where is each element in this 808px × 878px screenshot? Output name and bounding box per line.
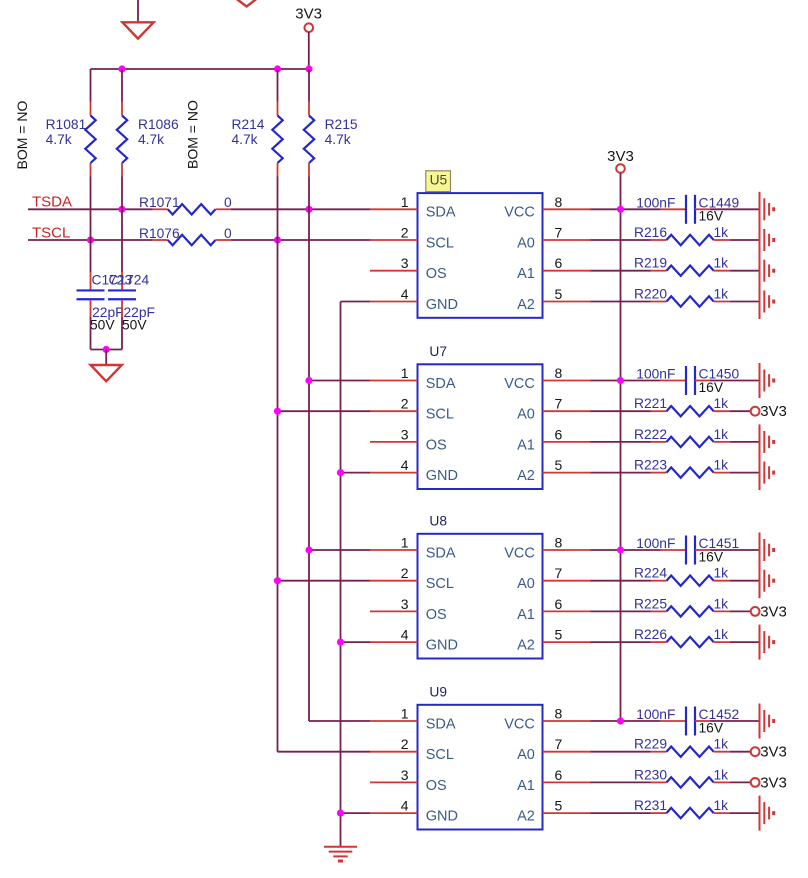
svg-text:3V3: 3V3: [760, 403, 787, 420]
svg-text:VCC: VCC: [504, 545, 535, 561]
svg-text:4: 4: [401, 627, 409, 643]
svg-text:100nF: 100nF: [636, 195, 675, 210]
junction TSDA/R1086: [118, 206, 125, 213]
resistor R229 1k: [591, 751, 651, 753]
pin 1 SDA of U5: [370, 208, 418, 210]
svg-text:1: 1: [401, 365, 409, 381]
pin 4 GND of U5: [370, 301, 418, 303]
wire U8.SDA to TSDA rail: [309, 549, 370, 551]
svg-text:7: 7: [555, 225, 563, 241]
junction caps/ground: [103, 346, 110, 353]
capacitor C1723 22pF 50V: [90, 272, 92, 290]
pin 2 SCL of U5: [370, 239, 418, 241]
svg-text:16V: 16V: [699, 380, 724, 395]
svg-text:1k: 1k: [714, 225, 729, 240]
svg-text:R224: R224: [634, 566, 667, 581]
junction bus/R1086: [118, 65, 125, 72]
svg-text:1k: 1k: [714, 256, 729, 271]
wire R1086 to C1724: [121, 177, 123, 273]
pin 5 A2 of U9: [543, 812, 591, 814]
wire U8.SCL to TSCL rail: [278, 580, 371, 582]
svg-text:A0: A0: [517, 747, 535, 763]
svg-text:2: 2: [401, 565, 409, 581]
ground (chassis, R220): [763, 291, 765, 313]
wire TSDA left: [28, 208, 153, 210]
resistor R226 1k: [591, 641, 651, 643]
svg-text:A0: A0: [517, 576, 535, 592]
capacitor C1451 100nF 16V: [661, 549, 686, 551]
svg-text:A0: A0: [517, 235, 535, 251]
svg-text:TSCL: TSCL: [32, 224, 70, 241]
pin 5 A2 of U7: [543, 472, 591, 474]
svg-text:1: 1: [401, 535, 409, 551]
power 3V3 (R221): [751, 407, 760, 416]
svg-text:0: 0: [224, 226, 232, 241]
ground (chassis, C1449): [763, 198, 765, 220]
svg-text:SDA: SDA: [426, 545, 456, 561]
svg-text:OS: OS: [426, 437, 447, 453]
svg-text:6: 6: [555, 255, 563, 271]
svg-text:2: 2: [401, 736, 409, 752]
ground (chassis, R219): [763, 260, 765, 282]
svg-text:100nF: 100nF: [636, 707, 675, 722]
wire cap commons join: [91, 349, 123, 351]
wire U9.SCL from TSCL rail end: [278, 751, 371, 753]
wire pull-up bus: [91, 68, 310, 70]
svg-text:1k: 1k: [714, 427, 729, 442]
junction TSCL rail U7: [274, 408, 281, 415]
ground (chassis, R223): [763, 462, 765, 484]
wire R222 to ground: [730, 441, 760, 443]
pin 1 SDA of U9: [370, 720, 418, 722]
svg-text:6: 6: [555, 767, 563, 783]
ground (chassis, C1452): [763, 710, 765, 732]
svg-text:OS: OS: [426, 607, 447, 623]
svg-text:BOM = NO: BOM = NO: [185, 100, 201, 169]
pin 8 VCC of U8: [543, 549, 591, 551]
wire VCC U7 to rail: [591, 380, 661, 382]
svg-text:5: 5: [555, 627, 563, 643]
pin 6 A1 of U7: [543, 441, 591, 443]
wire U9.GND to GND rail: [341, 812, 371, 814]
wire R230 to 3V3: [730, 781, 751, 783]
svg-text:R214: R214: [232, 117, 265, 132]
svg-text:A0: A0: [517, 407, 535, 423]
svg-text:1k: 1k: [714, 737, 729, 752]
svg-text:SDA: SDA: [426, 205, 456, 221]
wire R219 to ground: [730, 270, 760, 272]
junction GND rail U8: [337, 639, 344, 646]
svg-text:3V3: 3V3: [760, 603, 787, 620]
junction GND rail U9: [337, 810, 344, 817]
ground (chassis, R231): [763, 802, 765, 824]
svg-text:R230: R230: [634, 767, 667, 782]
pin 3 OS of U8: [370, 610, 418, 612]
svg-text:3V3: 3V3: [760, 774, 787, 791]
svg-text:A1: A1: [517, 437, 535, 453]
svg-text:A2: A2: [517, 297, 535, 313]
reference designator U5 (highlighted): [426, 171, 451, 192]
resistor R223 1k: [591, 472, 651, 474]
svg-text:1k: 1k: [714, 627, 729, 642]
svg-text:1: 1: [401, 706, 409, 722]
pin 6 A1 of U8: [543, 610, 591, 612]
svg-text:1k: 1k: [714, 396, 729, 411]
junction TSCL rail U8: [274, 577, 281, 584]
svg-text:SCL: SCL: [426, 407, 454, 423]
ground (earth bars, bottom of GND rail): [324, 846, 357, 848]
ground long bars (merged): [759, 192, 761, 319]
wire R216 to ground: [730, 239, 760, 241]
pin 4 GND of U9: [370, 812, 418, 814]
wire U5.GND to GND rail: [341, 301, 371, 303]
resistor R219 1k: [591, 270, 651, 272]
pin 8 VCC of U5: [543, 208, 591, 210]
wire U7.SCL to TSCL rail: [278, 410, 371, 412]
junction bus/R214: [274, 65, 281, 72]
wire C1450 to ground: [710, 380, 760, 382]
svg-text:3: 3: [401, 426, 409, 442]
svg-text:1: 1: [401, 194, 409, 210]
svg-text:R226: R226: [634, 627, 667, 642]
ground (triangle, top left): [122, 22, 153, 38]
svg-text:8: 8: [555, 535, 563, 551]
svg-text:U9: U9: [429, 684, 447, 699]
svg-text:VCC: VCC: [504, 205, 535, 221]
pin 2 SCL of U9: [370, 751, 418, 753]
wire C1451 to ground: [710, 549, 760, 551]
power symbol tip (cut off at top edge): [236, 0, 257, 7]
wire C1449 to ground: [710, 208, 760, 210]
junction TSCL/R1081: [87, 236, 94, 243]
svg-text:4.7k: 4.7k: [232, 132, 258, 147]
svg-text:R1076: R1076: [139, 226, 180, 241]
svg-text:GND: GND: [426, 638, 458, 654]
junction TSDA rail U7: [305, 377, 312, 384]
wire R229 to 3V3: [730, 751, 751, 753]
resistor R231 1k: [591, 812, 651, 814]
svg-text:U5: U5: [430, 172, 448, 187]
svg-text:2: 2: [401, 396, 409, 412]
wire U8.GND to GND rail: [341, 641, 371, 643]
svg-text:R1086: R1086: [138, 117, 179, 132]
wire TSCL rail (R214 column): [277, 177, 279, 752]
svg-text:4: 4: [401, 457, 409, 473]
wire GND rail: [340, 302, 342, 847]
svg-text:7: 7: [555, 736, 563, 752]
svg-text:R231: R231: [634, 798, 667, 813]
svg-text:6: 6: [555, 426, 563, 442]
svg-text:3: 3: [401, 255, 409, 271]
svg-text:8: 8: [555, 365, 563, 381]
svg-text:R229: R229: [634, 737, 667, 752]
svg-text:U7: U7: [429, 344, 447, 359]
wire TSCL to U5.SCL: [231, 239, 370, 241]
svg-text:R220: R220: [634, 287, 667, 302]
svg-text:4.7k: 4.7k: [138, 132, 164, 147]
svg-text:SCL: SCL: [426, 747, 454, 763]
svg-text:1k: 1k: [714, 767, 729, 782]
svg-text:5: 5: [555, 798, 563, 814]
svg-text:R225: R225: [634, 596, 667, 611]
svg-text:SCL: SCL: [426, 576, 454, 592]
svg-text:100nF: 100nF: [636, 536, 675, 551]
svg-text:16V: 16V: [699, 209, 724, 224]
pin 3 OS of U9: [370, 781, 418, 783]
svg-text:1k: 1k: [714, 798, 729, 813]
ground (chassis, R226): [763, 631, 765, 653]
wire R221 to 3V3: [730, 410, 751, 412]
capacitor C1724 22pF 50V: [121, 272, 123, 290]
svg-text:R216: R216: [634, 225, 667, 240]
wire R231 to ground: [730, 812, 760, 814]
wire C1724 to ground: [121, 317, 123, 350]
junction VCC rail U8: [617, 546, 624, 553]
pin 8 VCC of U9: [543, 720, 591, 722]
wire R224 to ground: [730, 580, 760, 582]
svg-text:3: 3: [401, 596, 409, 612]
svg-text:7: 7: [555, 396, 563, 412]
capacitor C1452 100nF 16V: [661, 720, 686, 722]
resistor R216 1k: [591, 239, 651, 241]
svg-text:GND: GND: [426, 809, 458, 825]
svg-text:1k: 1k: [714, 287, 729, 302]
power 3V3 (R225): [751, 607, 760, 616]
svg-text:2: 2: [401, 225, 409, 241]
capacitor C1450 100nF 16V: [661, 380, 686, 382]
junction bus/3V3: [305, 65, 312, 72]
wire R225 to 3V3: [730, 610, 751, 612]
svg-text:8: 8: [555, 706, 563, 722]
wire VCC U8 to rail: [591, 549, 661, 551]
pin 1 SDA of U7: [370, 380, 418, 382]
pin 6 A1 of U9: [543, 781, 591, 783]
svg-text:3V3: 3V3: [760, 744, 787, 761]
pin 3 OS of U5: [370, 270, 418, 272]
svg-text:SDA: SDA: [426, 376, 456, 392]
svg-text:1k: 1k: [714, 458, 729, 473]
svg-text:1k: 1k: [714, 596, 729, 611]
ground (triangle, below caps): [91, 365, 122, 381]
wire R1081 to C1723: [90, 177, 92, 273]
power 3V3 (R230): [751, 778, 760, 787]
svg-text:50V: 50V: [122, 317, 147, 332]
svg-text:50V: 50V: [90, 317, 115, 332]
svg-text:4.7k: 4.7k: [325, 132, 351, 147]
svg-text:OS: OS: [426, 266, 447, 282]
junction VCC rail U7: [617, 377, 624, 384]
pin 1 SDA of U8: [370, 549, 418, 551]
pin 7 A0 of U5: [543, 239, 591, 241]
resistor R220 1k: [591, 301, 651, 303]
svg-text:C1724: C1724: [109, 272, 150, 287]
ground (chassis, C1451): [763, 539, 765, 561]
svg-text:OS: OS: [426, 778, 447, 794]
wire TSDA rail (R215 column): [308, 177, 310, 722]
ground (chassis, R224): [763, 570, 765, 592]
capacitor C1449 100nF 16V: [661, 208, 686, 210]
wire VCC U9 to rail: [591, 720, 661, 722]
wire R223 to ground: [730, 472, 760, 474]
wire U7.SDA to TSDA rail: [309, 380, 370, 382]
svg-text:5: 5: [555, 457, 563, 473]
svg-text:100nF: 100nF: [636, 367, 675, 382]
svg-text:4: 4: [401, 286, 409, 302]
svg-text:VCC: VCC: [504, 376, 535, 392]
svg-text:6: 6: [555, 596, 563, 612]
svg-text:R215: R215: [325, 117, 358, 132]
junction VCC rail U9: [617, 717, 624, 724]
svg-text:A1: A1: [517, 607, 535, 623]
wire R220 to ground: [730, 301, 760, 303]
svg-text:1k: 1k: [714, 566, 729, 581]
pin 4 GND of U7: [370, 472, 418, 474]
svg-text:R1071: R1071: [139, 195, 180, 210]
pin 6 A1 of U5: [543, 270, 591, 272]
junction TSCL/R214 rail: [274, 236, 281, 243]
svg-text:R223: R223: [634, 458, 667, 473]
resistor R214 4.7k: [277, 69, 279, 102]
svg-text:GND: GND: [426, 468, 458, 484]
wire to ground triangle: [105, 350, 107, 366]
svg-text:A1: A1: [517, 266, 535, 282]
svg-text:3V3: 3V3: [295, 6, 322, 23]
svg-text:A2: A2: [517, 809, 535, 825]
wire VCC U5 to rail: [591, 208, 661, 210]
resistor R222 1k: [591, 441, 651, 443]
svg-text:BOM = NO: BOM = NO: [14, 101, 30, 170]
svg-text:16V: 16V: [699, 549, 724, 564]
resistor R1086 4.7k: [121, 69, 123, 102]
wire to off-sheet ground (top left): [137, 0, 139, 22]
wire 3V3 VCC rail: [620, 173, 622, 721]
svg-text:R222: R222: [634, 427, 667, 442]
resistor R224 1k: [591, 580, 651, 582]
wire TSCL left: [28, 239, 153, 241]
svg-text:SCL: SCL: [426, 235, 454, 251]
svg-text:A1: A1: [517, 778, 535, 794]
wire R226 to ground: [730, 641, 760, 643]
svg-text:7: 7: [555, 565, 563, 581]
svg-text:A2: A2: [517, 468, 535, 484]
wire C1723 to ground: [90, 317, 92, 350]
wire U9.SDA from TSDA rail end: [309, 720, 370, 722]
svg-text:3: 3: [401, 767, 409, 783]
svg-text:8: 8: [555, 194, 563, 210]
junction TSDA/R215 rail: [305, 206, 312, 213]
pin 5 A2 of U8: [543, 641, 591, 643]
svg-text:GND: GND: [426, 297, 458, 313]
resistor R221 1k: [591, 410, 651, 412]
pin 3 OS of U7: [370, 441, 418, 443]
resistor R230 1k: [591, 781, 651, 783]
power 3V3 (R229): [751, 747, 760, 756]
pin 4 GND of U8: [370, 641, 418, 643]
resistor R225 1k: [591, 610, 651, 612]
junction TSDA rail U8: [305, 546, 312, 553]
svg-text:0: 0: [224, 195, 232, 210]
pin 7 A0 of U7: [543, 410, 591, 412]
svg-text:R1081: R1081: [46, 117, 87, 132]
wire U7.GND to GND rail: [341, 472, 371, 474]
ground (chassis, C1450): [763, 370, 765, 392]
svg-text:4.7k: 4.7k: [46, 132, 72, 147]
wire TSDA to U5.SDA: [231, 208, 370, 210]
pin 8 VCC of U7: [543, 380, 591, 382]
ground (chassis, R216): [763, 229, 765, 251]
svg-text:3V3: 3V3: [607, 148, 634, 165]
wire 3V3 to bus: [308, 32, 310, 69]
resistor R1081 4.7k: [90, 69, 92, 102]
svg-text:R221: R221: [634, 396, 667, 411]
pin 5 A2 of U5: [543, 301, 591, 303]
pin 7 A0 of U8: [543, 580, 591, 582]
pin 2 SCL of U8: [370, 580, 418, 582]
junction GND rail U7: [337, 469, 344, 476]
svg-text:TSDA: TSDA: [32, 194, 72, 211]
svg-text:16V: 16V: [699, 720, 724, 735]
svg-text:SDA: SDA: [426, 716, 456, 732]
junction VCC rail U5: [617, 206, 624, 213]
pin 2 SCL of U7: [370, 410, 418, 412]
svg-text:U8: U8: [429, 513, 447, 528]
pin 7 A0 of U9: [543, 751, 591, 753]
svg-text:4: 4: [401, 798, 409, 814]
svg-text:5: 5: [555, 286, 563, 302]
svg-text:VCC: VCC: [504, 716, 535, 732]
svg-text:R219: R219: [634, 256, 667, 271]
svg-text:A2: A2: [517, 638, 535, 654]
resistor R215 4.7k: [308, 69, 310, 102]
wire C1452 to ground: [710, 720, 760, 722]
ground (chassis, R222): [763, 431, 765, 453]
